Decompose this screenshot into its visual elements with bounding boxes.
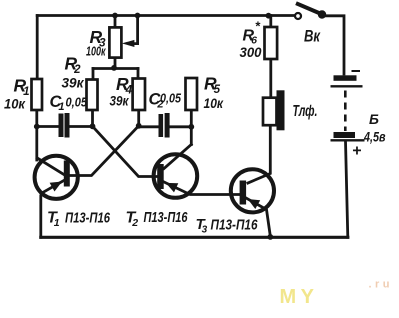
svg-text:39к: 39к [110,94,130,109]
svg-text:П13-П16: П13-П16 [65,211,111,227]
svg-text:Б: Б [369,111,379,127]
svg-text:Тлф.: Тлф. [293,103,318,120]
svg-text:10к: 10к [4,97,26,112]
svg-text:+: + [352,143,361,160]
svg-text:П13-П16: П13-П16 [144,210,189,226]
svg-text:0,05: 0,05 [66,96,88,110]
svg-text:100к: 100к [86,45,106,59]
svg-text:10к: 10к [204,96,225,111]
svg-text:300: 300 [240,45,262,60]
svg-text:Вк: Вк [304,28,321,46]
svg-text:0,05: 0,05 [160,92,182,106]
svg-text:4,5в: 4,5в [363,130,385,145]
svg-text:39к: 39к [62,76,85,91]
svg-text:П13-П16: П13-П16 [211,218,259,234]
